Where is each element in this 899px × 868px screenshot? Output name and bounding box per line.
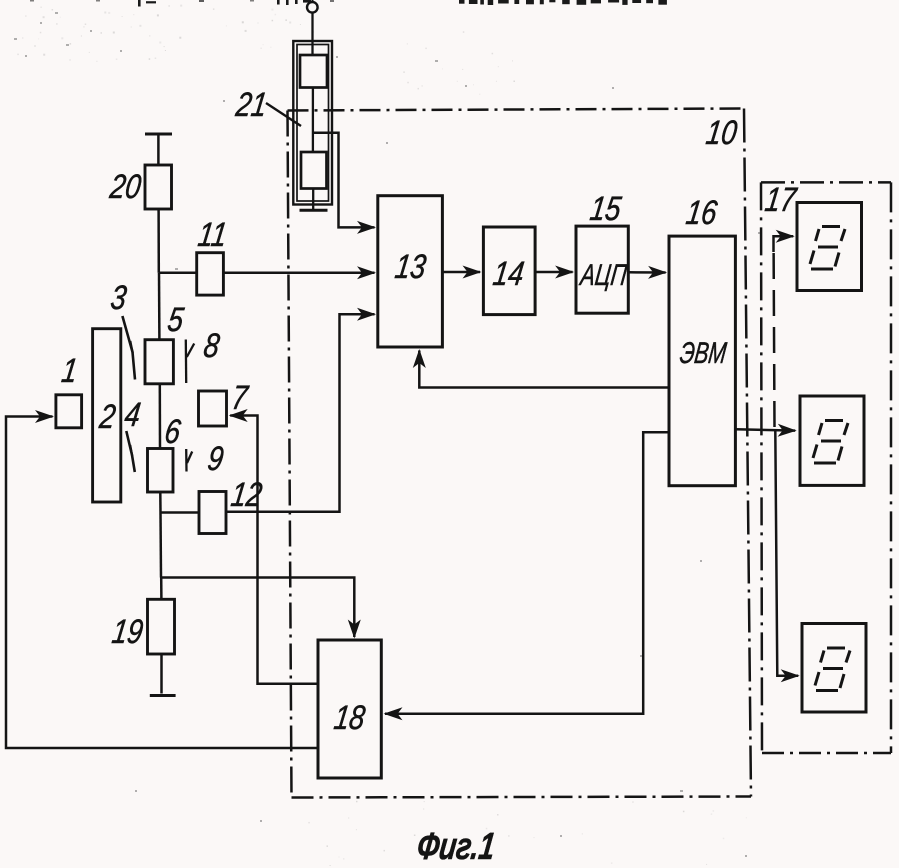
block 14	[483, 227, 535, 315]
svg-text:20: 20	[107, 167, 144, 205]
wire block 6 down to branch 12	[159, 492, 162, 513]
block 20	[145, 165, 172, 209]
wire 11 to 13	[223, 271, 374, 274]
wire rail 11-junction down to block 5	[158, 273, 161, 340]
dash-dot boundary 10 left edge	[288, 111, 292, 798]
wire 13 to 14	[442, 271, 480, 274]
tick mark 9	[186, 449, 192, 472]
svg-text:19: 19	[110, 612, 146, 650]
wire 18 to 1 long feedback	[6, 417, 318, 749]
wire 19 to ground	[160, 654, 163, 694]
svg-text:12: 12	[229, 475, 265, 513]
block 19	[148, 599, 175, 654]
sensor 21 element box lower	[301, 152, 327, 189]
svg-text:16: 16	[684, 193, 720, 231]
svg-text:18: 18	[332, 698, 368, 736]
dash-dot boundary 10 top edge	[288, 109, 745, 111]
seven segment digit B	[813, 421, 848, 464]
svg-text:АЦП: АЦП	[577, 258, 630, 292]
wire 18 to 7	[230, 416, 318, 684]
block 18	[318, 640, 381, 778]
tick mark 8	[186, 340, 194, 384]
wire junction to block 11	[159, 271, 197, 274]
wire branch toward 18	[161, 578, 354, 638]
sensor 21 stem wires	[311, 13, 314, 210]
pointer line for 4	[126, 431, 135, 472]
sensor 21 bottom bar	[300, 209, 328, 212]
dash-dot boundary 10 bottom edge	[292, 797, 752, 798]
sensor 21 element box upper	[300, 55, 327, 88]
block 6	[148, 449, 174, 493]
top terminal bar of supply rail	[145, 133, 172, 136]
block 5	[145, 340, 173, 384]
wire 20 to junction	[157, 209, 160, 273]
block 16 computer	[669, 236, 735, 486]
dash-dot boundary 17 (indicator unit)	[761, 182, 891, 753]
block 1	[56, 395, 82, 428]
wire 16 to 13 bottom input	[419, 351, 669, 388]
wire block 5 to block 6	[159, 384, 162, 449]
pointer line for 3	[122, 316, 135, 380]
ground bar under 19	[150, 694, 176, 697]
wire branch to block 12	[161, 511, 200, 514]
cropped text fragments top right	[459, 0, 667, 5]
display box C	[802, 624, 866, 713]
display box A	[797, 203, 862, 291]
block 15 ADC	[576, 226, 628, 313]
cropped text fragments top left	[30, 0, 334, 7]
block 12	[199, 492, 226, 534]
wire rail down to branch 18	[159, 513, 162, 578]
seven segment digit A	[810, 227, 845, 270]
dash-dot boundary 10 right edge	[744, 109, 751, 797]
sensor 21 terminal circle	[307, 0, 318, 13]
wire 16 to 18	[385, 432, 669, 714]
svg-text:14: 14	[491, 254, 527, 292]
wire bar to block 20	[157, 134, 160, 165]
block 2	[93, 329, 121, 502]
block 13	[378, 196, 443, 347]
block 7	[199, 391, 227, 426]
svg-text:Фиг.1: Фиг.1	[415, 826, 498, 868]
wire 15 to 16	[628, 271, 665, 274]
pointer line for 21	[266, 103, 301, 126]
wire riser to display A dashed segment	[772, 248, 775, 427]
wire 14 to 15	[535, 271, 573, 274]
wire elbow into display A	[774, 236, 794, 252]
wire 16 to display B	[735, 429, 795, 430]
wire 12 to 13 lower input	[226, 314, 375, 512]
wire 21 branch to 13 upper input	[313, 133, 375, 228]
svg-text:10: 10	[704, 113, 740, 151]
svg-text:13: 13	[393, 247, 429, 285]
wire riser to display C	[775, 430, 798, 676]
svg-text:15: 15	[588, 189, 624, 227]
display box B	[800, 396, 864, 485]
seven segment digit C	[815, 648, 850, 691]
sensor 21 outer double box	[293, 41, 332, 205]
svg-text:ЭВМ: ЭВМ	[678, 335, 729, 370]
wire rail down to block 19	[160, 578, 163, 600]
svg-text:21: 21	[233, 85, 270, 123]
block 11	[197, 253, 224, 295]
svg-text:11: 11	[196, 215, 230, 253]
